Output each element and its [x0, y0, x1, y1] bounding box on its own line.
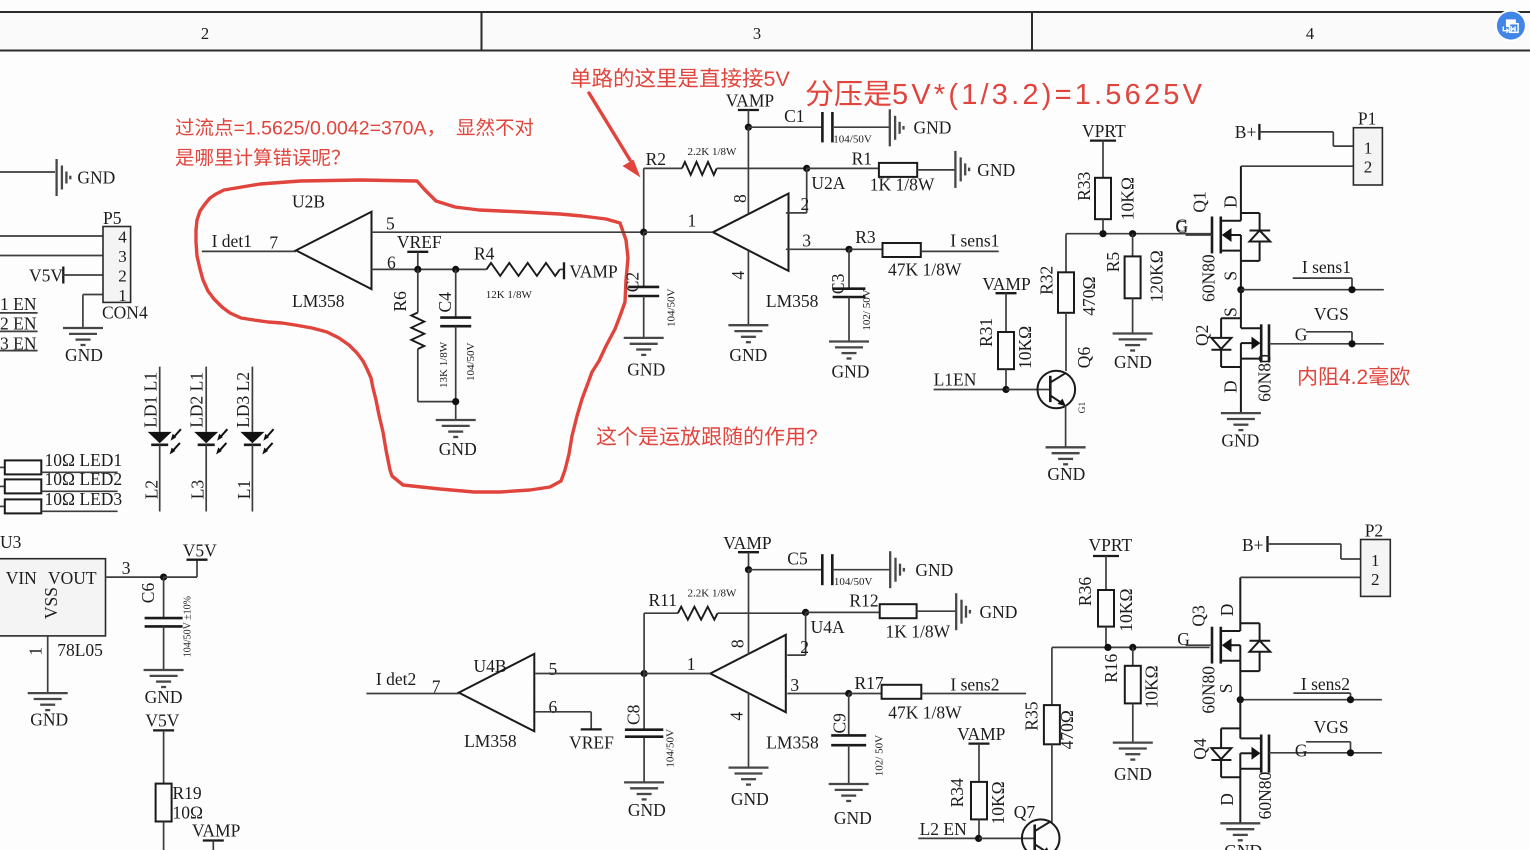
svg-text:1: 1: [688, 211, 697, 231]
svg-text:=1.5625/0.0042=370A: =1.5625/0.0042=370A: [234, 118, 427, 140]
wire: [0, 255, 103, 257]
capacitor C6: [163, 577, 165, 618]
browser extension icon: [1495, 10, 1527, 42]
wire: [63, 274, 103, 276]
wire: [366, 693, 458, 695]
svg-text:U2B: U2B: [292, 192, 325, 212]
svg-text:102/ 50V: 102/ 50V: [873, 735, 885, 776]
resistor R2: [644, 167, 682, 169]
svg-text:V5V: V5V: [183, 541, 217, 561]
LED LD3 cathode wire: [251, 445, 253, 512]
Q3 gate wire: [1186, 644, 1213, 646]
resistor R32: [1065, 234, 1067, 273]
svg-text:GND: GND: [731, 789, 769, 809]
svg-text:2: 2: [201, 24, 209, 43]
svg-text:GND: GND: [915, 560, 953, 580]
resistor 10Ω LED1: [0, 466, 5, 468]
svg-text:P5: P5: [103, 208, 122, 228]
svg-text:LD3 L2: LD3 L2: [233, 372, 253, 428]
svg-text:4: 4: [728, 271, 748, 280]
wire: [1006, 389, 1050, 391]
connector P5: [103, 227, 131, 303]
red note resistance: [1299, 366, 1316, 385]
svg-text:Q1: Q1: [1190, 191, 1210, 212]
red note divider formula: [806, 80, 833, 106]
svg-text:P2: P2: [1365, 521, 1383, 541]
wire: [749, 569, 823, 571]
wire pin5 U4B to node: [535, 673, 644, 675]
ground under U3: [28, 692, 68, 694]
svg-text:10KΩ: 10KΩ: [1015, 326, 1035, 369]
svg-text:VSS: VSS: [41, 587, 61, 619]
wire: [560, 268, 564, 270]
wire: [832, 569, 890, 571]
ground under R5: [1113, 332, 1153, 334]
junction: [452, 266, 459, 273]
pin 3 wire: [786, 248, 849, 250]
svg-text:GND: GND: [1114, 352, 1152, 372]
svg-text:6: 6: [549, 697, 558, 717]
resistor 10Ω LED2: [0, 485, 5, 487]
svg-text:Q4: Q4: [1190, 738, 1210, 760]
svg-text:L2 EN: L2 EN: [920, 819, 968, 839]
LED LD3 arrows: [267, 429, 274, 437]
svg-text:13K 1/8W: 13K 1/8W: [438, 341, 450, 388]
svg-text:?: ?: [806, 426, 818, 449]
svg-text:C4: C4: [435, 292, 455, 313]
junction: [1237, 696, 1244, 703]
wire: [163, 822, 165, 850]
svg-text:GND: GND: [914, 118, 952, 138]
svg-text:I sens1: I sens1: [1302, 257, 1351, 277]
svg-text:C9: C9: [830, 713, 850, 734]
pin 4 wire: [748, 693, 750, 768]
svg-text:104/50V: 104/50V: [666, 288, 678, 327]
svg-text:LM358: LM358: [766, 291, 819, 311]
svg-text:10KΩ: 10KΩ: [988, 781, 1008, 824]
svg-text:8: 8: [730, 194, 750, 203]
svg-text:VREF: VREF: [569, 733, 614, 753]
ground (sideways, top-left): [55, 159, 57, 196]
svg-text:470Ω: 470Ω: [1057, 710, 1077, 749]
resistor R11: [644, 612, 678, 614]
junction: [1347, 696, 1354, 703]
svg-text:LM358: LM358: [464, 731, 517, 751]
resistor R6: [417, 269, 419, 312]
svg-text:VAMP: VAMP: [192, 821, 241, 841]
wire pin6: [371, 268, 486, 270]
svg-text:GND: GND: [77, 168, 115, 188]
junction: [975, 835, 982, 842]
capacitor C3: [848, 249, 850, 288]
svg-text:10Ω LED2: 10Ω LED2: [45, 469, 123, 489]
svg-text:GND: GND: [1221, 431, 1259, 451]
svg-text:G: G: [1295, 741, 1308, 761]
junction node2: [641, 670, 648, 677]
svg-text:C5: C5: [787, 549, 808, 569]
svg-text:S: S: [1216, 683, 1236, 693]
wire P1 pin2 to Q1 drain: [1241, 165, 1354, 167]
svg-text:60N80: 60N80: [1255, 772, 1275, 820]
capacitor C1: [821, 112, 824, 142]
svg-text:I sens1: I sens1: [950, 231, 999, 251]
ground under C3: [829, 340, 869, 342]
svg-text:V5V: V5V: [145, 711, 179, 731]
svg-text:104/50V: 104/50V: [465, 342, 477, 381]
svg-text:2: 2: [801, 194, 810, 214]
junction: [802, 609, 809, 616]
op-amp U4B: [459, 654, 535, 731]
ground under C2: [624, 337, 664, 339]
svg-text:GND: GND: [977, 160, 1015, 180]
wire P2 pin2 to Q3 drain: [1240, 576, 1360, 578]
svg-text:C2: C2: [622, 272, 642, 292]
junction: [745, 124, 752, 131]
pin 1 wire: [644, 673, 710, 675]
pin 3 wire: [106, 576, 164, 578]
svg-text:R4: R4: [474, 244, 495, 264]
pin 8 wire: [747, 127, 749, 213]
ground under P5: [63, 327, 103, 329]
svg-text:S: S: [1221, 307, 1241, 317]
svg-text:10Ω LED1: 10Ω LED1: [45, 450, 123, 470]
svg-text:1: 1: [25, 647, 45, 656]
junction: [1099, 230, 1106, 237]
svg-text:LM358: LM358: [292, 291, 345, 311]
svg-text:I det2: I det2: [376, 669, 416, 689]
ground under R16: [1113, 741, 1153, 743]
svg-text:U3: U3: [0, 532, 22, 552]
power port V5V: [62, 267, 64, 284]
svg-text:120KΩ: 120KΩ: [1147, 250, 1167, 302]
svg-text:GND: GND: [627, 360, 665, 380]
svg-text:R36: R36: [1075, 577, 1095, 606]
svg-text:S: S: [1221, 271, 1241, 281]
ground (sideways) after C1: [889, 109, 891, 146]
svg-text:Q2: Q2: [1192, 325, 1212, 346]
svg-text:1K 1/8W: 1K 1/8W: [886, 622, 951, 642]
op-amp U2B: [296, 212, 372, 289]
svg-text:2: 2: [118, 267, 127, 286]
connector P2: [1361, 540, 1391, 597]
power port VREF: [581, 728, 602, 730]
svg-text:I sens2: I sens2: [1301, 674, 1350, 694]
wire R11 left vertical: [643, 613, 645, 673]
resistor R19: [156, 784, 172, 822]
svg-text:5V: 5V: [764, 67, 791, 91]
svg-text:4: 4: [1306, 24, 1314, 43]
junction: [1104, 644, 1111, 651]
svg-text:GND: GND: [1224, 841, 1262, 850]
svg-text:U4B: U4B: [474, 656, 507, 676]
svg-text:D: D: [1221, 195, 1241, 208]
svg-text:1: 1: [1371, 551, 1380, 570]
svg-text:R1: R1: [852, 149, 872, 169]
svg-text:L1: L1: [234, 480, 254, 499]
svg-text:R33: R33: [1074, 171, 1094, 200]
transistor Q2: [1240, 290, 1242, 329]
svg-text:3: 3: [802, 231, 811, 251]
junction: [1347, 749, 1354, 756]
svg-text:2: 2: [1364, 158, 1373, 177]
wire: [979, 837, 1035, 839]
svg-text:G: G: [1176, 217, 1189, 237]
ground under U4A: [729, 766, 769, 768]
wire: [163, 730, 165, 783]
resistor R36: [1098, 590, 1114, 627]
svg-text:2: 2: [800, 637, 809, 657]
svg-text:R16: R16: [1101, 653, 1121, 682]
svg-text:4.2: 4.2: [1339, 366, 1368, 389]
svg-text:R17: R17: [855, 673, 884, 693]
svg-text:R2: R2: [646, 149, 666, 169]
svg-text:Q3: Q3: [1189, 605, 1209, 627]
svg-text:VAMP: VAMP: [569, 262, 618, 282]
svg-text:4: 4: [118, 228, 127, 247]
ground under C6: [144, 669, 184, 671]
pin 1 wire: [47, 636, 49, 693]
resistor R33: [1095, 178, 1111, 219]
resistor 10Ω LED3: [0, 505, 5, 507]
svg-text:GND: GND: [980, 602, 1018, 622]
svg-text:2.2K 1/8W: 2.2K 1/8W: [688, 146, 738, 158]
svg-text:GND: GND: [1114, 764, 1152, 784]
svg-text:LM358: LM358: [766, 733, 819, 753]
junction: [414, 266, 421, 273]
svg-text:R12: R12: [849, 591, 878, 611]
ground (sideways) after C5: [889, 551, 891, 588]
wire pin6 to VREF: [535, 711, 591, 713]
svg-text:GND: GND: [832, 362, 870, 382]
svg-text:10Ω LED3: 10Ω LED3: [45, 489, 123, 509]
pin 2 stub: [786, 212, 807, 214]
svg-text:R31: R31: [976, 318, 996, 347]
svg-text:L2: L2: [141, 480, 161, 499]
gate net wire: [1066, 233, 1212, 235]
pin 8 wire: [748, 570, 750, 655]
svg-text:104/50V: 104/50V: [665, 729, 677, 768]
junction: [1348, 340, 1355, 347]
svg-text:I det1: I det1: [212, 231, 252, 251]
transistor Q6: [1038, 371, 1076, 409]
ground under C4: [436, 419, 476, 421]
svg-text:7: 7: [269, 233, 278, 253]
svg-text:D: D: [1217, 793, 1237, 806]
LED LD2: [194, 432, 218, 443]
junction: [160, 574, 167, 581]
svg-text:R19: R19: [173, 783, 202, 803]
svg-text:R6: R6: [390, 291, 410, 312]
resistor R12: [806, 611, 880, 613]
svg-text:2.2K 1/8W: 2.2K 1/8W: [688, 588, 738, 600]
svg-text:10Ω: 10Ω: [173, 803, 204, 823]
svg-text:104/50V: 104/50V: [833, 134, 872, 146]
ground under C8: [624, 781, 664, 783]
svg-text:10KΩ: 10KΩ: [1116, 589, 1136, 632]
wire: [202, 250, 296, 252]
svg-text:VAMP: VAMP: [723, 533, 772, 553]
svg-text:1 EN: 1 EN: [0, 294, 37, 314]
red arrow: [589, 93, 630, 160]
LED LD1: [148, 432, 172, 443]
resistor R34: [971, 782, 987, 820]
junction: [745, 566, 752, 573]
svg-text:P1: P1: [1358, 109, 1376, 129]
sheet header band: [0, 12, 1530, 51]
svg-text:VIN: VIN: [6, 568, 37, 588]
pin 4 wire: [747, 251, 749, 325]
LED LD1 cathode wire: [159, 445, 161, 512]
junction: [1129, 644, 1136, 651]
svg-text:VAMP: VAMP: [726, 91, 775, 111]
svg-text:5: 5: [386, 214, 395, 234]
svg-text:U2A: U2A: [811, 173, 845, 193]
svg-text:C1: C1: [784, 106, 804, 126]
resistor R5: [1132, 234, 1134, 257]
Q2 gate wire: [1269, 343, 1384, 345]
svg-text:L1EN: L1EN: [934, 370, 977, 390]
svg-text:60N80: 60N80: [1199, 666, 1219, 714]
resistor R4: [486, 263, 559, 276]
pin 1 wire: [644, 231, 713, 233]
wire: [0, 171, 55, 173]
regulator U3 box: [0, 559, 106, 636]
wire B+ to P1: [1259, 131, 1333, 133]
svg-text:U4A: U4A: [811, 617, 845, 637]
LED LD2 cathode wire: [205, 445, 207, 512]
capacitor C4: [455, 269, 457, 317]
ground under Q6: [1046, 446, 1086, 448]
transistor Q7: [1022, 819, 1060, 850]
svg-text:Q7: Q7: [1014, 802, 1036, 822]
svg-text:8: 8: [728, 639, 748, 648]
resistor R35: [1051, 647, 1053, 705]
svg-text:Q6: Q6: [1074, 347, 1094, 369]
svg-text:C3: C3: [828, 273, 848, 294]
svg-text:D: D: [1221, 380, 1241, 393]
op-amp U2A: [713, 194, 789, 271]
svg-text:R11: R11: [649, 590, 678, 610]
Q6 emitter wire: [1065, 406, 1067, 448]
svg-text:R34: R34: [947, 778, 967, 807]
svg-text:2: 2: [1371, 570, 1380, 589]
transistor Q3: [1211, 627, 1214, 664]
LED LD2 anode wire: [205, 367, 207, 432]
svg-text:B+: B+: [1242, 535, 1264, 555]
wire: [83, 294, 103, 296]
resistor R3: [849, 248, 883, 250]
svg-text:104/50V ±10%: 104/50V ±10%: [183, 596, 194, 657]
svg-text:B+: B+: [1235, 122, 1257, 142]
svg-text:GND: GND: [439, 439, 477, 459]
svg-text:CON4: CON4: [102, 303, 148, 323]
wire B+ to P2: [1268, 543, 1341, 545]
svg-text:78L05: 78L05: [57, 640, 103, 660]
svg-text:GND: GND: [65, 345, 103, 365]
junction: [803, 165, 810, 172]
LED LD3 anode wire: [251, 367, 253, 432]
svg-text:GND: GND: [628, 800, 666, 820]
junction node1: [640, 229, 647, 236]
svg-text:10KΩ: 10KΩ: [1142, 665, 1162, 708]
svg-text:GND: GND: [834, 808, 872, 828]
svg-text:60N80: 60N80: [1255, 354, 1275, 402]
svg-text:104/50V: 104/50V: [834, 576, 873, 588]
ground under Q4: [1220, 822, 1260, 824]
svg-text:GND: GND: [1047, 464, 1085, 484]
svg-text:V5V: V5V: [29, 266, 63, 286]
svg-text:47K 1/8W: 47K 1/8W: [888, 260, 962, 280]
junction: [845, 246, 852, 253]
ground (sideways) after R1: [954, 151, 956, 188]
ground under C9: [829, 783, 869, 785]
LED LD1 anode wire: [159, 367, 161, 432]
junction: [1348, 286, 1355, 293]
red note single-path: [571, 68, 590, 88]
power port VAMP: [563, 262, 565, 279]
svg-text:10KΩ: 10KΩ: [1118, 177, 1138, 220]
capacitor C2: [643, 232, 645, 287]
svg-text:VAMP: VAMP: [982, 274, 1031, 294]
capacitor C8: [643, 674, 645, 730]
net I sens2 wire: [1240, 699, 1382, 701]
transistor Q1: [1211, 217, 1214, 254]
LED LD3: [240, 432, 264, 443]
svg-text:2 EN: 2 EN: [0, 314, 37, 334]
svg-text:VGS: VGS: [1314, 304, 1349, 324]
svg-text:C8: C8: [624, 704, 644, 725]
capacitor C9: [848, 694, 850, 736]
junction: [1129, 230, 1136, 237]
svg-text:3: 3: [790, 675, 799, 695]
red note follower: [597, 426, 616, 445]
ground under U2A: [728, 324, 768, 326]
svg-text:VGS: VGS: [1314, 717, 1349, 737]
svg-text:102/ 50V: 102/ 50V: [861, 289, 873, 330]
svg-text:LD1 L1: LD1 L1: [140, 372, 160, 428]
wire pin5 U2B to node: [371, 231, 643, 233]
red freehand loop: [196, 180, 628, 492]
resistor R17: [849, 693, 882, 695]
svg-text:VAMP: VAMP: [957, 724, 1006, 744]
junction: [845, 690, 852, 697]
red note line 2: [176, 149, 194, 166]
LED LD1 arrows: [174, 429, 181, 437]
svg-text:5V*(1/3.2)=1.5625V: 5V*(1/3.2)=1.5625V: [892, 79, 1205, 111]
svg-text:470Ω: 470Ω: [1079, 276, 1099, 315]
svg-text:1K 1/8W: 1K 1/8W: [870, 175, 935, 195]
connector P1: [1353, 128, 1382, 185]
svg-text:1: 1: [1364, 139, 1373, 158]
junction I sens1 node: [1237, 286, 1244, 293]
LED LD2 arrows: [220, 429, 227, 437]
gate net wire: [1052, 646, 1210, 648]
svg-text:R35: R35: [1021, 701, 1041, 730]
red note line 1: [176, 118, 194, 135]
Q1 gate wire: [1186, 234, 1213, 236]
svg-text:G: G: [1295, 324, 1308, 344]
svg-text:VPRT: VPRT: [1089, 535, 1133, 555]
Q4 gate wire: [1269, 752, 1382, 754]
svg-text:D: D: [1217, 604, 1237, 617]
svg-text:G1: G1: [1078, 402, 1088, 414]
svg-text:4: 4: [727, 712, 747, 721]
svg-text:3: 3: [118, 247, 127, 266]
ground under Q2: [1221, 412, 1261, 414]
svg-text:GND: GND: [729, 345, 767, 365]
svg-text:LD2 L1: LD2 L1: [187, 372, 207, 428]
wire: [748, 126, 822, 128]
